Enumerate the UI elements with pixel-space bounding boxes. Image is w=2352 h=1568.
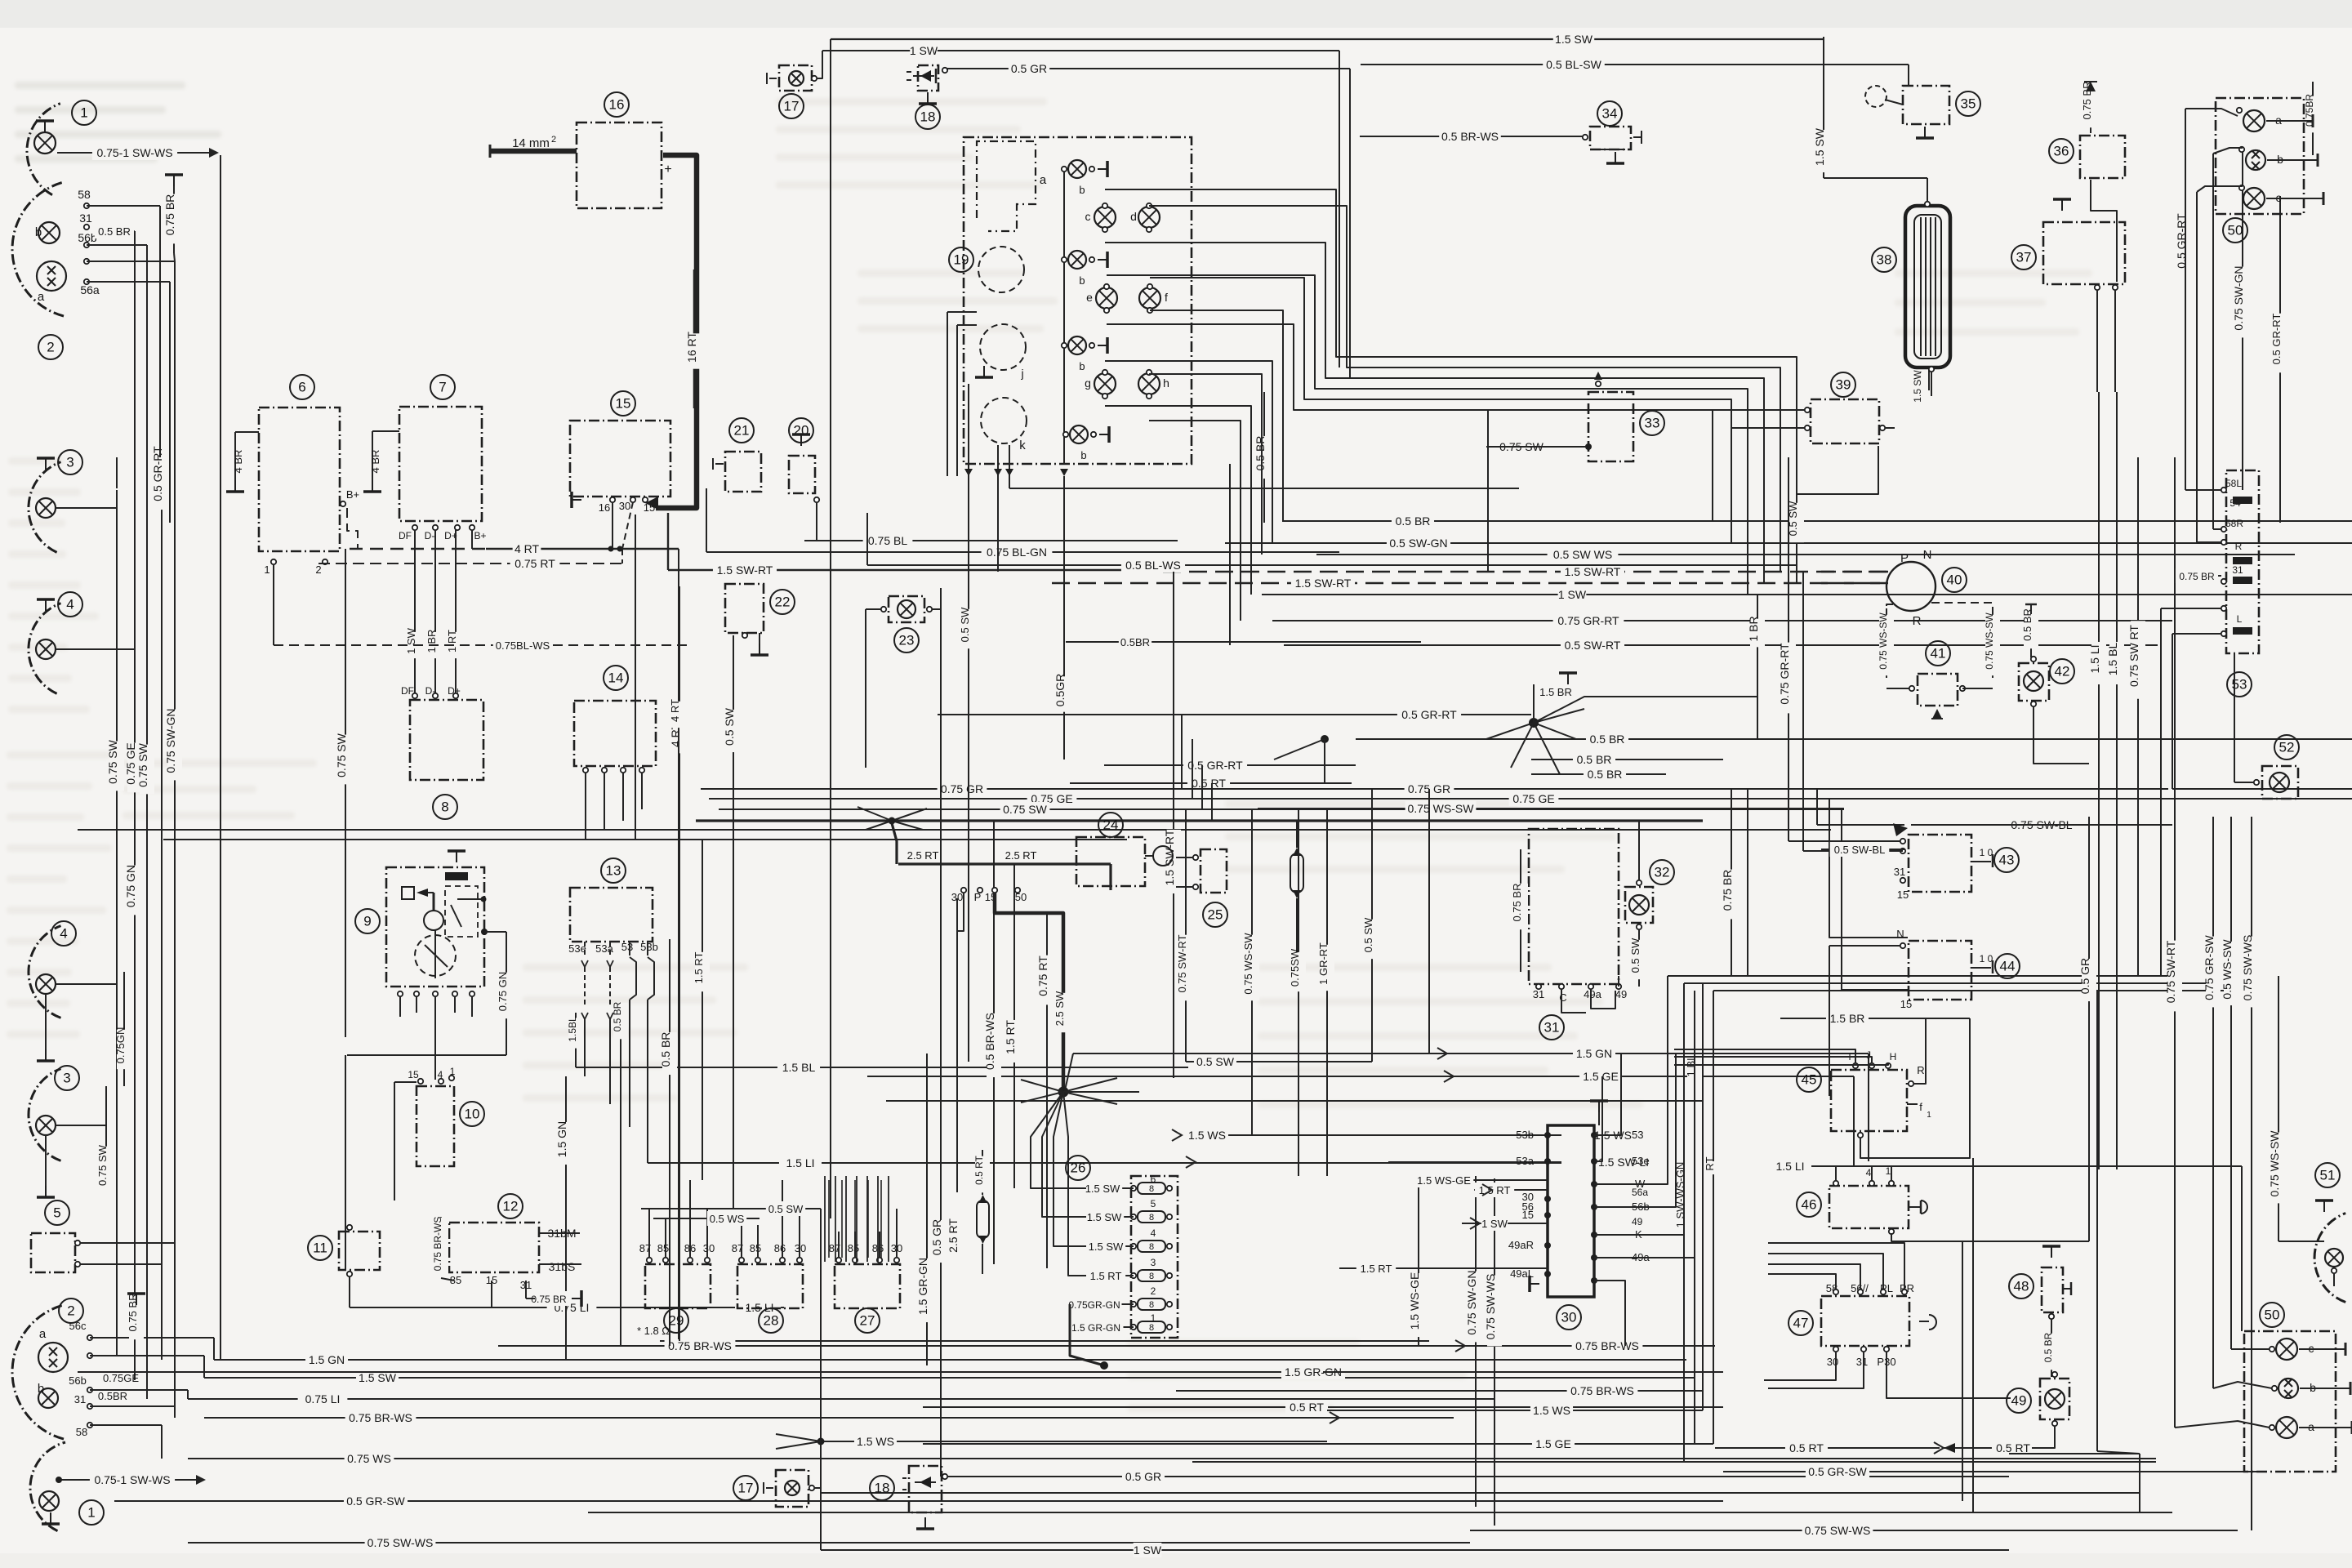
svg-text:0.5 BR: 0.5 BR: [1254, 436, 1267, 471]
lamp 4 lower-left: [29, 921, 117, 1061]
dynamo 8: [401, 685, 483, 819]
regulator 7: [363, 375, 487, 549]
svg-text:5: 5: [53, 1205, 60, 1221]
svg-text:51: 51: [2320, 1168, 2336, 1183]
svg-text:15: 15: [1897, 889, 1909, 901]
flasher 31: [1511, 829, 1627, 1040]
svg-text:j: j: [1020, 367, 1023, 380]
svg-text:0.5 BR: 0.5 BR: [1396, 514, 1431, 528]
svg-text:4: 4: [1866, 1167, 1872, 1178]
svg-text:0.75BL-WS: 0.75BL-WS: [496, 639, 550, 652]
svg-text:1 SW: 1 SW: [1558, 588, 1587, 601]
lamp 42: [2019, 604, 2089, 764]
svg-text:D-: D-: [425, 530, 435, 541]
svg-text:0.5 RT: 0.5 RT: [1789, 1441, 1824, 1454]
svg-text:44: 44: [2000, 959, 2016, 974]
svg-text:0.5 RT: 0.5 RT: [973, 1155, 985, 1184]
svg-text:53a: 53a: [595, 942, 613, 955]
svg-text:0.75GE: 0.75GE: [103, 1372, 139, 1384]
svg-text:C: C: [1559, 991, 1566, 1004]
fuse holder lower: [973, 1150, 990, 1274]
cluster 19: [947, 137, 1192, 476]
svg-text:0.75-1 SW-WS: 0.75-1 SW-WS: [94, 1473, 170, 1486]
headlamp 2 lower-left: [12, 1298, 214, 1459]
svg-text:0.75 GN: 0.75 GN: [124, 865, 137, 907]
svg-text:0.5 BL-WS: 0.5 BL-WS: [1125, 559, 1181, 572]
relay 33: [1488, 372, 1664, 461]
svg-text:45: 45: [1802, 1072, 1817, 1088]
svg-text:58L: 58L: [2225, 478, 2242, 489]
svg-text:58: 58: [76, 1426, 87, 1438]
svg-text:0.5 BL-SW: 0.5 BL-SW: [1546, 58, 1601, 71]
svg-text:33: 33: [1645, 416, 1660, 431]
svg-text:0.5 GR: 0.5 GR: [930, 1219, 943, 1255]
svg-text:1.5 LI: 1.5 LI: [2088, 644, 2101, 673]
svg-text:0.5 GR: 0.5 GR: [1011, 62, 1047, 75]
svg-text:2: 2: [551, 135, 556, 145]
svg-text:0.5 SW: 0.5 SW: [1629, 938, 1641, 973]
svg-text:49: 49: [1632, 1216, 1643, 1227]
svg-text:1 BR: 1 BR: [425, 630, 438, 653]
svg-text:0.75 BL-GN: 0.75 BL-GN: [987, 546, 1047, 559]
svg-text:31: 31: [74, 1393, 86, 1405]
svg-text:1.5 GN: 1.5 GN: [1576, 1047, 1612, 1060]
svg-text:35: 35: [1961, 96, 1976, 112]
svg-text:30: 30: [1827, 1356, 1838, 1368]
wire 4RT dashed: [318, 514, 686, 1339]
svg-text:8: 8: [1149, 1323, 1154, 1333]
svg-text:47: 47: [1793, 1316, 1809, 1331]
svg-text:H: H: [1890, 1051, 1897, 1062]
svg-text:1.5 GR-GN: 1.5 GR-GN: [1071, 1322, 1120, 1334]
svg-text:0.5BR: 0.5BR: [98, 1390, 127, 1402]
svg-text:31: 31: [79, 212, 92, 225]
svg-text:85: 85: [750, 1242, 761, 1254]
switch 43: [1788, 572, 2019, 901]
svg-text:1.5 RT: 1.5 RT: [1090, 1270, 1122, 1282]
svg-text:1 SW: 1 SW: [910, 44, 938, 57]
svg-text:R: R: [1913, 614, 1922, 628]
svg-text:0.75 WS-SW: 0.75 WS-SW: [2268, 1130, 2281, 1197]
svg-text:0.5 SW: 0.5 SW: [1787, 501, 1799, 536]
svg-text:1.5 SW: 1.5 SW: [1085, 1183, 1120, 1195]
wire 0.75BR lower: [127, 1294, 145, 1340]
svg-text:39: 39: [1836, 377, 1851, 393]
svg-text:12: 12: [503, 1199, 519, 1214]
svg-text:R: R: [2235, 541, 2243, 552]
svg-text:1 SW: 1 SW: [405, 627, 417, 654]
wire right verticals: [1912, 82, 2324, 1530]
svg-text:b: b: [1079, 360, 1085, 372]
svg-text:1.5 LI: 1.5 LI: [786, 1156, 814, 1169]
switch 41: [1886, 641, 1993, 719]
svg-text:50: 50: [2228, 223, 2243, 238]
svg-text:19: 19: [954, 252, 969, 268]
svg-text:8: 8: [1149, 1242, 1154, 1252]
svg-text:1.5 BL: 1.5 BL: [782, 1061, 816, 1074]
svg-text:0.5 BR: 0.5 BR: [1590, 733, 1625, 746]
svg-text:2: 2: [315, 563, 321, 576]
svg-text:56a: 56a: [1632, 1187, 1648, 1198]
svg-text:1.5 GE: 1.5 GE: [1535, 1437, 1571, 1450]
connector 53: [2161, 470, 2259, 976]
svg-text:0.75 BL: 0.75 BL: [868, 534, 907, 547]
svg-text:0.75 BR-WS: 0.75 BR-WS: [668, 1339, 732, 1352]
svg-text:2.5 RT: 2.5 RT: [907, 849, 939, 862]
wire right top feeds: [2185, 109, 2280, 542]
svg-text:41: 41: [1931, 646, 1946, 661]
svg-text:31: 31: [1544, 1020, 1560, 1036]
svg-text:0.5 SW: 0.5 SW: [959, 607, 971, 642]
svg-text:3: 3: [66, 455, 73, 470]
svg-text:8: 8: [1149, 1272, 1154, 1281]
svg-text:0.75SW: 0.75SW: [1289, 948, 1301, 987]
svg-text:L: L: [2237, 613, 2243, 625]
svg-text:0.5 GR-RT: 0.5 GR-RT: [2270, 314, 2283, 365]
wire left verticals: [96, 155, 353, 1417]
connector 25: [1176, 849, 1227, 927]
svg-text:0.75 GR-SW: 0.75 GR-SW: [2203, 935, 2216, 1000]
svg-text:49: 49: [1615, 988, 1627, 1000]
svg-text:0.5 GR-RT: 0.5 GR-RT: [151, 446, 164, 501]
svg-text:0.75GN: 0.75GN: [114, 1027, 127, 1064]
svg-text:0.5 SW: 0.5 SW: [768, 1203, 804, 1215]
svg-text:1.5 WS: 1.5 WS: [1533, 1404, 1570, 1417]
svg-text:53b: 53b: [640, 941, 658, 953]
scan show-through: [7, 82, 2092, 1412]
svg-text:c: c: [1085, 210, 1091, 223]
svg-text:42: 42: [2055, 664, 2070, 679]
svg-text:1 BR: 1 BR: [1747, 616, 1760, 641]
svg-text:56b: 56b: [69, 1374, 87, 1387]
svg-text:0.75 SW-WS: 0.75 SW-WS: [2241, 935, 2254, 1001]
svg-text:50: 50: [2265, 1307, 2280, 1323]
wire right bus: [1668, 789, 2242, 1331]
svg-text:15: 15: [1522, 1209, 1534, 1221]
svg-text:J: J: [1866, 1049, 1871, 1061]
svg-text:7: 7: [439, 380, 446, 395]
lamp 32: [1625, 821, 1674, 987]
svg-text:1: 1: [1886, 1165, 1891, 1177]
svg-text:d: d: [1130, 210, 1137, 223]
svg-text:1.5 SW-RT: 1.5 SW-RT: [1295, 577, 1352, 590]
svg-text:1.5 SW: 1.5 SW: [1555, 33, 1593, 46]
svg-text:58: 58: [78, 188, 91, 201]
svg-text:0.75 SW: 0.75 SW: [96, 1144, 109, 1186]
svg-text:17: 17: [784, 99, 800, 114]
svg-text:1.5 SW-RT: 1.5 SW-RT: [1163, 829, 1176, 885]
svg-text:0.75 SW-RT: 0.75 SW-RT: [1176, 934, 1188, 992]
svg-text:+: +: [664, 163, 671, 176]
svg-text:2.5 RT: 2.5 RT: [1005, 849, 1037, 862]
svg-text:1.5 SW-RT: 1.5 SW-RT: [717, 563, 773, 577]
relay 29: [637, 1180, 715, 1337]
svg-text:6: 6: [298, 380, 305, 395]
svg-text:0.75 RT: 0.75 RT: [1036, 955, 1049, 996]
heater fan 45: [1674, 1018, 1931, 1158]
wire 0.75BR stub: [163, 175, 183, 261]
wire mid-right verticals: [1254, 37, 1831, 1526]
svg-text:0.75-1 SW-WS: 0.75-1 SW-WS: [96, 146, 172, 159]
svg-text:1: 1: [87, 1505, 95, 1521]
svg-text:0.75 BR: 0.75 BR: [163, 194, 176, 236]
svg-text:4: 4: [66, 597, 73, 612]
junction star left: [1274, 735, 1329, 784]
svg-text:53e: 53e: [1632, 1155, 1650, 1167]
junction star 26: [1021, 1078, 1139, 1276]
svg-text:g: g: [1085, 376, 1091, 390]
svg-text:36: 36: [2054, 144, 2069, 159]
svg-text:14 mm: 14 mm: [512, 136, 550, 150]
svg-text:1.5 RT: 1.5 RT: [693, 952, 705, 984]
svg-text:B+: B+: [474, 530, 486, 541]
wiper switch 47: [1764, 1243, 2011, 1398]
svg-text:52: 52: [2279, 740, 2295, 755]
svg-text:k: k: [1019, 439, 1026, 452]
svg-text:0.5 BR-WS: 0.5 BR-WS: [1441, 130, 1499, 143]
svg-text:0.5 SW-BL: 0.5 SW-BL: [1834, 844, 1886, 856]
svg-text:0.5 SW: 0.5 SW: [1362, 917, 1374, 952]
wire top bus: [822, 33, 1927, 178]
svg-text:53: 53: [1632, 1129, 1643, 1141]
svg-text:0.75 BR: 0.75 BR: [2179, 571, 2215, 582]
sender 22: [725, 584, 795, 655]
svg-text:58R: 58R: [2225, 518, 2243, 529]
wire 0.75 bus: [78, 635, 2352, 830]
fusebox 26: [1066, 1156, 1178, 1370]
svg-text:1 SW: 1 SW: [1134, 1543, 1162, 1557]
svg-text:37: 37: [2016, 250, 2032, 265]
svg-text:8: 8: [1149, 1184, 1154, 1194]
lamp 4 left: [29, 592, 135, 693]
svg-text:4: 4: [60, 926, 67, 942]
svg-text:86: 86: [774, 1242, 786, 1254]
svg-text:b: b: [35, 225, 42, 239]
svg-text:1 GR-RT: 1 GR-RT: [1317, 942, 1330, 985]
svg-text:2.5 RT: 2.5 RT: [947, 1218, 960, 1253]
svg-text:8: 8: [1149, 1300, 1154, 1310]
svg-text:0.5 GR: 0.5 GR: [2078, 958, 2091, 994]
svg-text:49a: 49a: [1584, 988, 1601, 1000]
tail lamp 50 top-right: [2185, 98, 2323, 376]
svg-text:f: f: [1919, 1101, 1922, 1113]
relay 11: [308, 1225, 380, 1307]
svg-text:22: 22: [775, 595, 791, 610]
svg-text:3: 3: [63, 1071, 70, 1086]
svg-text:1.5 SW: 1.5 SW: [1813, 127, 1826, 166]
svg-text:1: 1: [264, 563, 269, 576]
svg-text:0.5 SW-RT: 0.5 SW-RT: [1565, 639, 1621, 652]
svg-text:85: 85: [848, 1242, 859, 1254]
svg-text:1: 1: [80, 105, 87, 121]
svg-text:1.5 RT: 1.5 RT: [1004, 1020, 1017, 1054]
svg-text:1: 1: [1927, 1111, 1931, 1120]
svg-text:30: 30: [1522, 1191, 1534, 1203]
svg-text:0.75 WS: 0.75 WS: [347, 1452, 391, 1465]
svg-text:b: b: [1079, 274, 1085, 287]
svg-text:1 SW: 1 SW: [1481, 1218, 1508, 1230]
svg-text:49aR: 49aR: [1508, 1239, 1534, 1251]
svg-text:8: 8: [441, 800, 448, 815]
lamp 49: [1944, 1372, 2069, 1453]
svg-text:1.5 GN: 1.5 GN: [309, 1353, 345, 1366]
switch 34: [1583, 101, 1641, 163]
svg-text:56c: 56c: [69, 1320, 87, 1332]
svg-text:0.5 GR: 0.5 GR: [1125, 1470, 1161, 1483]
svg-text:31: 31: [1533, 988, 1544, 1000]
svg-text:30: 30: [619, 500, 630, 512]
svg-text:16: 16: [599, 501, 610, 514]
svg-text:0.75 SW-RT: 0.75 SW-RT: [2164, 940, 2177, 1003]
radio 46: [1797, 1165, 2089, 1241]
svg-text:53a: 53a: [1516, 1155, 1534, 1167]
svg-text:18: 18: [920, 109, 936, 125]
svg-text:31bS: 31bS: [549, 1260, 576, 1273]
svg-text:0.75 SW-WS: 0.75 SW-WS: [367, 1536, 434, 1549]
svg-text:0.75 SW: 0.75 SW: [335, 733, 348, 777]
svg-text:4: 4: [1151, 1227, 1156, 1239]
svg-text:9: 9: [363, 914, 371, 929]
svg-text:1.5 WS: 1.5 WS: [1188, 1129, 1226, 1142]
svg-text:0.75 SW: 0.75 SW: [1003, 803, 1047, 816]
headlamp switch 30: [1339, 976, 1695, 1346]
svg-text:0.5 GR-SW: 0.5 GR-SW: [1808, 1465, 1867, 1478]
svg-text:N: N: [1896, 928, 1904, 940]
svg-text:1.5 SW: 1.5 SW: [1087, 1211, 1122, 1223]
ignition 9: [355, 851, 488, 1080]
svg-text:0.5 GR-RT: 0.5 GR-RT: [1401, 708, 1457, 721]
svg-text:1 RT: 1 RT: [446, 630, 458, 653]
svg-text:31: 31: [1856, 1356, 1868, 1368]
svg-text:31: 31: [1894, 866, 1905, 878]
svg-text:1.5 WS: 1.5 WS: [857, 1435, 894, 1448]
switch 13: [568, 858, 677, 1346]
svg-text:0.75 SW-WS: 0.75 SW-WS: [1484, 1274, 1497, 1340]
svg-text:0.5 GR-SW: 0.5 GR-SW: [346, 1494, 405, 1508]
svg-text:11: 11: [313, 1241, 327, 1256]
gear indicator 40: [1821, 548, 2000, 678]
svg-text:h: h: [1163, 376, 1169, 390]
fuse holder mid: [1290, 821, 1303, 976]
svg-text:30: 30: [951, 891, 963, 903]
svg-text:0.5 SW-GN: 0.5 SW-GN: [1389, 537, 1447, 550]
svg-text:1: 1: [1151, 1312, 1156, 1324]
svg-text:40: 40: [1947, 572, 1962, 588]
svg-text:* 1.8 Ω: * 1.8 Ω: [637, 1325, 670, 1337]
svg-text:1.5 SW-RT: 1.5 SW-RT: [1565, 565, 1621, 578]
svg-text:0.5 SW: 0.5 SW: [1196, 1055, 1235, 1068]
relay 27: [829, 1209, 902, 1333]
svg-text:15: 15: [616, 396, 631, 412]
svg-text:1 0: 1 0: [1980, 953, 1993, 964]
svg-text:30: 30: [703, 1242, 715, 1254]
svg-text:28: 28: [764, 1313, 779, 1329]
defroster 38: [1872, 178, 1950, 396]
sensor 21: [713, 418, 761, 492]
svg-text:0.75 SW-GN: 0.75 SW-GN: [164, 708, 177, 773]
svg-text:1.5 GR-GN: 1.5 GR-GN: [916, 1258, 929, 1315]
svg-text:0.75 BR-WS: 0.75 BR-WS: [349, 1411, 412, 1424]
svg-text:27: 27: [860, 1313, 875, 1329]
svg-text:1.5 BR: 1.5 BR: [1539, 686, 1572, 698]
svg-text:29: 29: [669, 1313, 684, 1329]
relay 12: [432, 1194, 735, 1307]
svg-text:0.5BR: 0.5BR: [1120, 636, 1150, 648]
wire alt leads: [274, 530, 693, 696]
svg-text:0.75 GE: 0.75 GE: [124, 742, 137, 784]
relay 28: [732, 1180, 806, 1333]
svg-text:34: 34: [1602, 106, 1618, 122]
diode 18 bottom: [870, 1466, 947, 1529]
svg-text:38: 38: [1877, 252, 1892, 268]
svg-text:31: 31: [2232, 564, 2243, 576]
svg-text:16: 16: [609, 97, 625, 113]
wire switch feeds: [576, 1046, 1869, 1170]
sensor 20: [789, 418, 821, 541]
svg-text:0.75 WS-SW: 0.75 WS-SW: [1242, 933, 1254, 995]
svg-text:0.75 SW: 0.75 SW: [136, 742, 149, 786]
alternator 6: [226, 375, 359, 645]
motor 37: [2011, 199, 2125, 392]
svg-text:0.75 SW-GN: 0.75 SW-GN: [2232, 265, 2245, 330]
tail lamp 50 bottom-right: [2009, 1303, 2352, 1512]
svg-text:0.75 GR-RT: 0.75 GR-RT: [1557, 614, 1619, 627]
svg-text:b: b: [1080, 449, 1086, 461]
relay 36: [2049, 82, 2125, 282]
svg-text:17: 17: [738, 1481, 754, 1496]
svg-text:1 0: 1 0: [1980, 847, 1993, 858]
wire 0.75GN coil: [163, 840, 1127, 1270]
svg-text:26: 26: [1071, 1160, 1086, 1176]
svg-text:6: 6: [1151, 1174, 1156, 1185]
svg-text:RT: RT: [1704, 1156, 1716, 1170]
wire mid bus: [668, 439, 2352, 653]
svg-text:0.75 BR-WS: 0.75 BR-WS: [432, 1217, 443, 1272]
svg-text:0.75 WS-SW: 0.75 WS-SW: [1408, 802, 1475, 815]
lamp unit 51: [2314, 1163, 2345, 1303]
svg-text:0.5 BR: 0.5 BR: [612, 1001, 623, 1031]
svg-text:0.5 WS-SW: 0.5 WS-SW: [2221, 939, 2234, 1000]
svg-text:1.5 SW: 1.5 SW: [359, 1371, 397, 1384]
svg-text:0.5 RT: 0.5 RT: [1996, 1441, 2030, 1454]
svg-text:0.75 BR-WS: 0.75 BR-WS: [1575, 1339, 1639, 1352]
svg-text:48: 48: [2014, 1279, 2029, 1294]
fuse 17 top: [767, 51, 822, 118]
switch 44: [1829, 928, 2020, 1096]
svg-text:24: 24: [1103, 817, 1119, 833]
junction star mid: [1486, 673, 1757, 774]
svg-text:0.5 BR-WS: 0.5 BR-WS: [983, 1013, 996, 1070]
relay 14: [574, 666, 656, 840]
svg-text:0.5 BR: 0.5 BR: [659, 1032, 672, 1067]
svg-text:0.5 SW: 0.5 SW: [723, 707, 736, 746]
wire 1.5GN right: [555, 840, 710, 1360]
svg-text:56b: 56b: [78, 231, 97, 244]
svg-text:0.75 GR-RT: 0.75 GR-RT: [1778, 643, 1791, 705]
svg-text:0.5GR: 0.5GR: [1053, 674, 1067, 706]
lamp 1 lower-left: [30, 1442, 104, 1531]
svg-text:1.5 WS-GE: 1.5 WS-GE: [1417, 1174, 1471, 1187]
lamp 1 (front indicator top-left): [27, 100, 96, 195]
lamp 23: [866, 596, 941, 768]
lamp 3 left: [29, 450, 117, 552]
svg-text:21: 21: [734, 423, 750, 439]
coil 10: [394, 1066, 484, 1200]
wire relays top: [641, 1176, 889, 1262]
svg-text:0.5 BR: 0.5 BR: [98, 225, 131, 238]
svg-text:2: 2: [47, 340, 54, 355]
fusebox 15: [570, 391, 670, 549]
